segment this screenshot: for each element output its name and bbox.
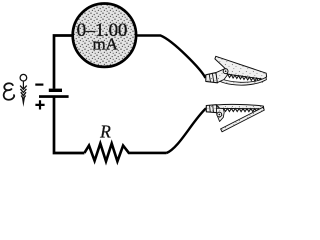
svg-text:R: R — [99, 122, 111, 142]
svg-text:mA: mA — [92, 34, 118, 53]
